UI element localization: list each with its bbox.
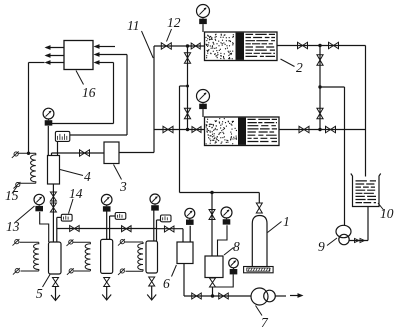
junction lower outlet: [318, 128, 321, 131]
flow indicator on reactor 5b: [115, 213, 126, 220]
wire gauge to reactor 5c: [153, 210, 155, 241]
valve transfer a: [70, 226, 80, 232]
unit 3: [104, 142, 119, 164]
lower autoclave outlet pipe: [279, 129, 366, 131]
wire gauge to lower autoclave: [202, 109, 204, 117]
pipe 11 vertical with elbow to unit 3: [119, 46, 154, 153]
valve lower outlet a: [299, 126, 309, 133]
signal wire level-gauge to box 16 (middle): [70, 52, 127, 135]
riser reactor 5b: [110, 216, 116, 239]
vent arrow line a (box 16 left top): [45, 45, 65, 50]
svg-text:12: 12: [167, 15, 181, 30]
check valve pump 9 outlet: [355, 239, 365, 243]
pressure gauge on reactor 5b: [101, 194, 112, 211]
feed pipe down right of unit 3: [180, 86, 260, 193]
flow indicator on reactor 5c: [161, 215, 172, 222]
svg-text:8: 8: [233, 239, 240, 254]
pressure gauge above unit 8: [221, 207, 232, 225]
wire gauge-4 square to vessel 4: [47, 126, 49, 156]
junction collector: [318, 85, 321, 88]
label 5 with leader: [36, 275, 50, 302]
transfer pipe 5b to 5c: [110, 228, 157, 230]
valve transfer c: [164, 226, 174, 232]
pump 9: [336, 225, 351, 244]
pipe to upper autoclave: [154, 45, 205, 47]
junction coil 15 top: [27, 152, 30, 155]
junction upper outlet: [318, 44, 321, 47]
check valve below unit 8: [210, 278, 216, 296]
label 1 with leader: [268, 214, 290, 233]
label 6 with leader: [163, 265, 176, 291]
valve at upper autoclave inlet: [191, 43, 200, 49]
pipe to lower autoclave: [154, 129, 205, 131]
pipe collector to pump 9: [320, 87, 345, 226]
valve discharge a: [192, 293, 202, 299]
svg-text:2: 2: [296, 60, 303, 75]
transfer pipe reactor5 to reactor5b: [57, 228, 110, 230]
signal wire sensor-4 to box 16 (bottom): [51, 60, 113, 123]
label 8 with leader: [224, 239, 240, 255]
valve above unit 8: [209, 210, 215, 220]
pressure gauge on vessel 4: [43, 108, 54, 125]
svg-text:14: 14: [69, 186, 83, 201]
label 10 with leader: [378, 203, 394, 221]
pressure gauge 13: [34, 194, 44, 211]
unit 6: [177, 242, 193, 264]
valve discharge b: [219, 293, 229, 299]
svg-text:6: 6: [163, 276, 170, 291]
valve at lower autoclave inlet: [192, 127, 201, 133]
svg-text:10: 10: [380, 206, 394, 221]
wire gauge 13 to reactor 5: [40, 212, 49, 242]
transfer pipe 5c to unit 6: [157, 229, 184, 242]
label 9 with leader: [318, 238, 337, 254]
label 7 with leader: [256, 306, 270, 330]
svg-text:15: 15: [5, 188, 19, 203]
wire level indicator to vessel 4: [57, 141, 59, 155]
unit 8: [205, 256, 223, 278]
reactor 5c: [146, 241, 158, 273]
riser reactor 5c: [157, 220, 161, 241]
wire gauge to upper autoclave: [202, 24, 204, 32]
drain valve reactor 5c: [149, 277, 155, 286]
svg-text:11: 11: [127, 18, 140, 33]
pipe junction to unit 8: [211, 193, 213, 257]
valve upper outlet b: [329, 42, 339, 49]
vent arrow line b (box 16 left middle): [45, 53, 65, 58]
check valve lower collector: [317, 108, 323, 119]
label 12 with leader: [167, 15, 181, 42]
drain arrow reactor 5c: [147, 286, 156, 300]
drain arrow reactor 5: [51, 287, 60, 301]
drain valve reactor 5: [53, 278, 59, 287]
label 13 with leader: [6, 206, 35, 234]
beaker 10: [351, 174, 381, 207]
valve between vessel 4 and unit 3: [80, 150, 90, 157]
label 16 with leader: [76, 71, 96, 101]
drain arrow reactor 5b: [102, 287, 111, 301]
signal wire from box 16 left bottom to coil 15: [29, 60, 65, 153]
column 1: [252, 216, 267, 267]
valve lower outlet b: [326, 126, 336, 133]
valve transfer b: [122, 226, 132, 232]
svg-text:1: 1: [283, 214, 290, 229]
pipe interconnect upper: [187, 46, 189, 130]
valve on lower supply: [163, 126, 173, 133]
junction feed pipe: [210, 191, 213, 194]
cooling coil B: [67, 239, 91, 274]
pressure gauge on reactor 5c: [150, 194, 160, 211]
wire gauge to unit 6: [189, 226, 191, 242]
reactor 5: [49, 242, 62, 274]
branch elbow to feed pipe: [180, 85, 190, 88]
vessel 4: [48, 156, 60, 185]
svg-text:13: 13: [6, 219, 20, 234]
pressure gauge on upper autoclave: [197, 5, 210, 25]
check valve upper collector: [317, 55, 323, 66]
check valve pair upper: [184, 53, 190, 64]
wire gauge-8b down: [213, 274, 234, 287]
label 15 with leader: [5, 187, 19, 204]
stub wire into box 16 right top: [94, 44, 116, 49]
pressure gauge beside unit 8: [229, 258, 239, 274]
valve upper outlet a: [298, 42, 308, 49]
junction discharge: [211, 294, 214, 297]
cooling coil 15: [12, 151, 36, 188]
cooling coil C: [118, 239, 143, 275]
outlet arrow: [290, 293, 304, 298]
column 1 base: [244, 267, 274, 273]
label 2 with leader: [281, 59, 304, 75]
controller box 16: [64, 41, 93, 70]
upper autoclave outlet pipe: [277, 45, 366, 47]
label 11 with leader: [127, 18, 153, 58]
check valve a below vessel 4: [50, 192, 56, 201]
svg-text:9: 9: [318, 239, 325, 254]
wire gauge to unit 8: [218, 225, 228, 256]
pump 7 outlet pipe: [275, 295, 286, 297]
valve 12: [161, 43, 171, 50]
autoclave 2 lower: [205, 117, 280, 146]
pump 9 outlet pipe: [349, 207, 368, 241]
pressure gauge on unit 6: [185, 208, 195, 225]
pressure gauge on lower autoclave: [197, 90, 210, 110]
check valve pair lower: [184, 108, 190, 119]
collector pipe with check valves: [319, 46, 321, 130]
junction lower supply: [186, 128, 189, 131]
return pipe to beaker: [365, 46, 367, 177]
feed pipe vessel 4 to reactor 5: [52, 184, 54, 242]
wire gauge to reactor 5b: [106, 210, 108, 239]
label 14 with leader: [69, 186, 83, 214]
check valve b below vessel 4: [50, 203, 56, 212]
riser reactor 5: [57, 217, 62, 242]
cooling coil A: [13, 239, 39, 275]
flow indicator 14: [61, 214, 72, 221]
wire vessel 4 to unit 3: [52, 153, 105, 156]
autoclave 2 upper: [205, 32, 278, 61]
level indicator on vessel 4: [55, 131, 69, 141]
svg-text:4: 4: [84, 169, 91, 184]
svg-text:5: 5: [36, 286, 43, 301]
check valve above column 1: [256, 193, 262, 214]
label 4 with leader: [60, 169, 91, 184]
discharge pipe from unit 6: [184, 264, 251, 297]
pump 7: [251, 288, 275, 305]
junction top supply: [186, 44, 189, 47]
reactor 5b: [101, 239, 113, 273]
drain valve reactor 5b: [104, 278, 110, 287]
label 3 with leader: [114, 165, 128, 195]
svg-text:16: 16: [82, 85, 96, 100]
svg-text:3: 3: [119, 179, 127, 194]
